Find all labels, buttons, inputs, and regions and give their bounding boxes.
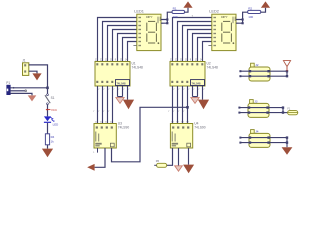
junction U4 clock node: [186, 106, 189, 109]
wire LED D1 to resistor R4: [47, 123, 49, 134]
J3 left terminal: [238, 107, 240, 109]
wire U2 input D to U4 QD: [187, 86, 189, 124]
resistor R5: [157, 163, 167, 167]
LED1 decimal point: [158, 42, 160, 44]
junction LED1 common: [166, 22, 168, 24]
J3 junction: [282, 111, 284, 113]
wire bus U2 pin7 to LED2 segment: [203, 42, 212, 62]
svg-text:LED2: LED2: [209, 9, 219, 14]
wire bus U1 pin1 to LED1 segment: [98, 18, 137, 62]
U4 bottom-right inner mark: [187, 143, 191, 147]
svg-text:74LS48: 74LS48: [132, 66, 144, 70]
J4 junction: [267, 141, 269, 143]
wire U2 input A to U4 QA: [172, 86, 174, 124]
wire J3 to fuse F1: [283, 112, 288, 114]
J4 top tab: [251, 130, 255, 134]
ground symbol (small) under U4: [175, 166, 183, 171]
wire bus U1 pin3 to LED1 segment: [108, 26, 137, 62]
signal direction arrow on P1 wire: [13, 87, 15, 89]
wire bus U1 pin4 to LED1 segment: [113, 30, 137, 62]
wire bus U2 pin4 to LED2 segment: [188, 30, 212, 62]
wire J4 to ground: [286, 143, 288, 148]
U2 device-type box: [191, 80, 205, 86]
wire U3 carry QD to U4 clock: [112, 107, 188, 162]
J3 lower wire: [239, 112, 283, 114]
wire U4 GND pin: [188, 148, 190, 165]
LED D1 cathode bar: [44, 122, 51, 123]
J2 junction: [286, 75, 288, 77]
U4 left pin-name labels CKA CKB (rotated): [172, 132, 176, 142]
J1 pin number labels: [24, 64, 26, 72]
wire U3 reset to input arrow: [95, 148, 105, 167]
wire bus U1 pin7 to LED1 segment: [128, 42, 137, 62]
wire bus U1 pin6 to LED1 segment: [123, 38, 137, 62]
J2 junction: [249, 75, 251, 77]
wire bus U2 pin5 to LED2 segment: [193, 34, 212, 62]
svg-text:100: 100: [173, 15, 178, 19]
wire U4 pin to small ground: [178, 148, 180, 166]
U4 bottom pin-name row R0 R9: [172, 143, 178, 147]
J2 left terminal: [239, 75, 241, 77]
J4 junction: [267, 136, 269, 138]
ground symbol (small) under U2: [191, 98, 199, 104]
wire R1 to VCC: [185, 8, 188, 12]
wire P1 middle pin: [10, 90, 25, 92]
resistor R4: [45, 134, 49, 145]
wire J2 power flag stem: [286, 67, 288, 71]
svg-text:LED1: LED1: [134, 9, 144, 14]
svg-text:P1: P1: [6, 81, 10, 85]
J3 right tie bar: [282, 108, 284, 113]
J2 junction: [267, 70, 269, 72]
U2 top pin-name row QA..QG: [171, 63, 203, 65]
power symbol VCC (up arrow): [183, 1, 192, 7]
J3 left terminal: [238, 112, 240, 114]
switch S1 contacts: [47, 94, 49, 96]
svg-text:74LS48: 74LS48: [207, 66, 219, 70]
J4 right tie bar: [286, 138, 288, 143]
P1 jack opening notch: [7, 89, 9, 92]
J2 top tab: [251, 63, 255, 67]
svg-text:100: 100: [248, 15, 253, 19]
wire stub: [119, 97, 121, 98]
counter IC U3 body: [94, 124, 116, 149]
J4 junction: [286, 141, 288, 143]
J2 junction: [267, 75, 269, 77]
ground symbol under J4: [282, 147, 293, 155]
wire R2 to VCC: [261, 8, 266, 12]
LED D1 emission arrows: [50, 117, 54, 122]
J2 lower wire: [240, 75, 287, 77]
ground symbol under U2: [198, 100, 209, 110]
connector block J4 body: [249, 133, 270, 147]
U3 bottom pin-name row R0 R9: [95, 143, 101, 147]
U1 bottom pin-name row A-D: [96, 81, 113, 83]
wire U2 input C to U4 QC: [182, 86, 184, 124]
LED1 seven-segment digit glyph: [147, 21, 157, 43]
resistor R2: [248, 10, 261, 13]
J3 junction: [266, 106, 268, 108]
wire U2 BI/RBI pins tie: [193, 86, 198, 97]
svg-text:74LS90: 74LS90: [118, 126, 130, 130]
ground symbol under U1: [123, 100, 134, 110]
connector block J3 body: [248, 103, 269, 117]
power flag symbol at J2: [283, 61, 290, 67]
svg-text:VCC: VCC: [51, 108, 57, 112]
power symbol VCC (up arrow): [261, 1, 270, 7]
ground symbol at P1: [28, 95, 37, 101]
J4 junction: [286, 136, 288, 138]
LED1 left pin-name labels a-g,dp: [138, 17, 141, 46]
svg-text:R5: R5: [156, 159, 160, 163]
fuse F1: [288, 110, 298, 114]
J3 upper wire: [239, 107, 283, 109]
J2 right tie bar: [286, 71, 288, 76]
wire U4 pin to R5: [167, 148, 173, 165]
wire U1 input B to U3 QB: [102, 86, 104, 124]
LED2 seven-segment digit glyph: [222, 21, 232, 43]
J2 upper wire: [240, 70, 287, 72]
power jack P1 body: [7, 85, 10, 94]
wire U1 BI/RBI pins tie: [118, 86, 123, 97]
wire S1 to LED D1: [47, 104, 49, 116]
wire U1 input D to U3 QD: [112, 86, 114, 124]
wire U1 GND pin: [127, 86, 129, 100]
wire J1 pin1 to VCC switch node: [29, 65, 48, 88]
wire U1 input A to U3 QA: [97, 86, 99, 124]
ground symbol (small) under U1: [116, 98, 124, 104]
LED1 right pin-name labels (rotated): [158, 17, 161, 24]
wire node to switch S1: [47, 88, 49, 94]
resistor R1: [172, 10, 185, 13]
LED1 right pin stubs: [161, 20, 163, 24]
J4 junction: [249, 136, 251, 138]
J4 lower wire: [240, 142, 287, 144]
J2 junction: [286, 70, 288, 72]
LED2 right pin-name labels (rotated): [233, 17, 236, 24]
svg-text:S1: S1: [51, 96, 55, 100]
svg-text:DPY: DPY: [146, 15, 152, 19]
J3 junction: [248, 106, 250, 108]
U1 top pin-name row QA..QG: [96, 63, 128, 65]
LED1 dp pin stub (unconnected): [133, 45, 136, 47]
wire bus U2 pin6 to LED2 segment: [198, 38, 212, 62]
svg-text:LED: LED: [53, 122, 59, 126]
wire LED2 common pins to R2: [236, 12, 248, 23]
power flag VCC tap: [48, 109, 51, 111]
J4 left terminal: [239, 137, 241, 139]
J3 junction: [248, 111, 250, 113]
svg-text:R4: R4: [51, 135, 55, 139]
J4 upper wire: [240, 137, 287, 139]
svg-text:DPY: DPY: [221, 15, 227, 19]
J3 top tab: [250, 100, 254, 104]
J4 junction: [249, 141, 251, 143]
wire bus U1 pin2 to LED1 segment: [103, 22, 137, 62]
fuse F1 element line: [288, 112, 298, 114]
wire bus U2 pin1 to LED2 segment: [173, 18, 212, 62]
ground symbol at J1: [32, 73, 41, 80]
U3 left pin-name labels CKA CKB (rotated): [95, 132, 99, 142]
LED2 left pin-name labels a-g,dp: [213, 17, 216, 46]
wire U1 input C to U3 QC: [107, 86, 109, 124]
junction LED1 common: [166, 18, 168, 20]
J3 junction: [266, 111, 268, 113]
ground symbol under R4: [42, 149, 53, 158]
junction LED2 common: [242, 22, 244, 24]
wire P1 sleeve to ground: [10, 93, 32, 95]
wire stub: [194, 97, 196, 98]
decoder IC U1 body: [95, 62, 130, 87]
junction LED2 common: [242, 18, 244, 20]
U1 device-type box: [116, 80, 130, 86]
connector block J2 body: [249, 67, 270, 81]
wire bus U2 pin2 to LED2 segment: [178, 22, 212, 62]
P1 middle pin open end: [25, 90, 27, 92]
J2 left terminal: [239, 70, 241, 72]
LED D1 (indicator): [44, 116, 51, 121]
J2 junction: [249, 70, 251, 72]
svg-text:1k: 1k: [51, 139, 55, 143]
LED2 decimal point: [233, 42, 235, 44]
LED2 right pin stubs: [236, 20, 238, 24]
wire U2 GND pin: [202, 86, 204, 100]
7-seg display LED2 body: [212, 14, 236, 50]
wire P1 V+ to switch node: [10, 87, 47, 89]
wire U2 input B to U4 QB: [177, 86, 179, 124]
U3 top pin-name row QA..QD: [96, 126, 113, 128]
ground symbol under U4: [183, 165, 194, 174]
input arrow (left) at U3: [87, 164, 94, 171]
svg-text:74LS48: 74LS48: [116, 81, 125, 85]
wire bus U2 pin3 to LED2 segment: [183, 26, 212, 62]
decoder IC U2 body: [170, 62, 205, 87]
svg-text:74LS48: 74LS48: [191, 81, 200, 85]
connector J1 body: [23, 63, 29, 76]
switch S1 blade: [45, 95, 50, 103]
7-seg display LED1 body: [137, 14, 161, 50]
LED2 dp pin stub (unconnected): [208, 45, 211, 47]
wire U3 pin stub: [97, 148, 99, 153]
wire R5 left stub: [154, 164, 156, 166]
J4 left terminal: [239, 142, 241, 144]
U3 bottom-right inner mark: [110, 143, 114, 147]
svg-text:J1: J1: [22, 58, 26, 62]
junction P1/J1/S1 node: [46, 87, 49, 90]
wire J1 pin2 to ground: [29, 71, 37, 73]
wire R4 to ground: [47, 145, 49, 149]
J3 junction: [282, 106, 284, 108]
wire LED1 common pins to R1: [161, 12, 172, 23]
svg-text:74LS90: 74LS90: [194, 126, 206, 130]
U4 top pin-name row QA..QD: [172, 126, 189, 128]
U2 bottom pin-name row A-D: [171, 81, 188, 83]
counter IC U4 body: [170, 124, 192, 149]
wire bus U1 pin5 to LED1 segment: [118, 34, 137, 62]
